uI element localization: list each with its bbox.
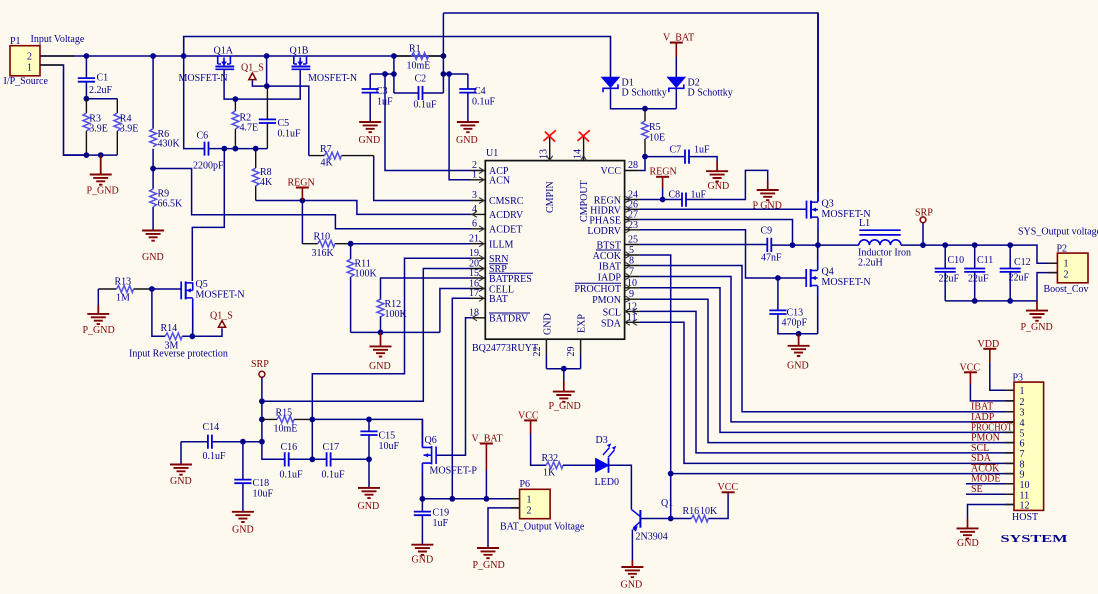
wire rail tap down to C6: [184, 56, 205, 149]
port VCC for R16: [718, 482, 739, 493]
svg-text:4K: 4K: [260, 177, 273, 188]
svg-text:ACOK: ACOK: [593, 251, 622, 262]
svg-text:SCL: SCL: [603, 307, 621, 318]
svg-text:C12: C12: [1014, 257, 1031, 268]
svg-text:C6: C6: [197, 131, 209, 142]
svg-text:MOSFET-P: MOSFET-P: [430, 466, 478, 477]
U1 top pins CMPIN/CMPOUT with no-connect X: [539, 130, 591, 222]
svg-text:R13: R13: [115, 277, 132, 288]
wire Q5 gate row: [152, 288, 181, 290]
ground GND under C13: [787, 331, 810, 372]
svg-text:PROCHOT: PROCHOT: [574, 284, 621, 295]
terminal SRP (output rail): [915, 208, 933, 249]
svg-text:470pF: 470pF: [782, 318, 808, 329]
svg-text:12: 12: [627, 301, 637, 312]
connector P2: [1044, 244, 1089, 296]
resistor R16: [668, 492, 728, 522]
svg-text:Input Voltage: Input Voltage: [31, 34, 85, 45]
svg-text:C19: C19: [433, 508, 450, 519]
svg-text:2.2uH: 2.2uH: [858, 258, 883, 269]
svg-text:21: 21: [469, 234, 479, 245]
svg-text:MOSFET-N: MOSFET-N: [179, 73, 228, 84]
wire input rail y=56: [40, 55, 443, 57]
svg-text:3: 3: [472, 190, 477, 201]
ground GND under C4: [456, 122, 479, 146]
wire REGN node down to R10: [301, 201, 303, 244]
U1 pin arrows right: [625, 197, 637, 326]
svg-text:CMSRC: CMSRC: [489, 196, 524, 207]
resistor R3: [83, 99, 108, 155]
U1 left pin stubs: [471, 171, 486, 318]
svg-text:0.1uF: 0.1uF: [278, 129, 302, 140]
ground P_GND under P2: [1021, 301, 1053, 333]
resistor R6: [150, 56, 181, 169]
svg-text:22uF: 22uF: [1009, 273, 1030, 284]
capacitor C1: [78, 56, 113, 99]
ground GND under C7: [706, 161, 729, 192]
wire ACOK net pin5 to P3 pin9 and Q1 base: [639, 255, 670, 519]
capacitor C13: [769, 275, 817, 334]
svg-text:GND: GND: [369, 361, 391, 372]
svg-text:R10: R10: [314, 232, 331, 243]
svg-text:IADP: IADP: [971, 412, 995, 423]
transistor Q6 MOSFET-P: [422, 419, 477, 498]
connector P1: [4, 34, 85, 87]
svg-text:LODRV: LODRV: [587, 226, 621, 237]
wire PHASE to switch node: [639, 220, 792, 246]
svg-text:BQ24773RUYT: BQ24773RUYT: [472, 343, 538, 354]
capacitor C11: [964, 245, 993, 301]
wire ILLM row pin21: [351, 243, 471, 245]
svg-text:10mE: 10mE: [407, 61, 431, 72]
svg-text:P_GND: P_GND: [549, 401, 581, 412]
svg-text:13: 13: [539, 149, 550, 159]
wire connector pin stubs: [40, 56, 1057, 508]
svg-text:47nF: 47nF: [761, 253, 782, 264]
wire SDA net pin11 to P3 pin8: [639, 322, 1014, 463]
wire gates node row y=148.6: [224, 148, 267, 150]
svg-text:316K: 316K: [312, 248, 335, 259]
svg-text:4.7E: 4.7E: [240, 123, 259, 134]
svg-text:P_GND: P_GND: [83, 325, 115, 336]
port REGN (left): [288, 177, 315, 200]
svg-text:0.1uF: 0.1uF: [203, 451, 227, 462]
wire SYS output rail: [945, 245, 1057, 263]
svg-text:10uF: 10uF: [253, 489, 274, 500]
inductor L1: [818, 218, 945, 269]
svg-text:25: 25: [628, 235, 638, 246]
svg-text:I/P_Source: I/P_Source: [4, 76, 49, 87]
wire BATPRES row to R12: [381, 278, 471, 300]
svg-text:Q1A: Q1A: [214, 46, 234, 57]
svg-text:SYS_Output voltage: SYS_Output voltage: [1018, 227, 1098, 238]
connector P6: [500, 479, 585, 533]
wire SCL net pin12 to P3 pin7: [639, 311, 1014, 453]
svg-text:1uF: 1uF: [694, 145, 710, 156]
svg-text:14: 14: [572, 149, 583, 159]
wire gates node to Q5 drain: [192, 149, 224, 281]
svg-text:CMPIN: CMPIN: [545, 181, 556, 213]
ground GND under R9: [142, 231, 164, 264]
capacitor C7: [645, 145, 717, 164]
svg-text:IADP: IADP: [598, 273, 622, 284]
resistor R14: [152, 289, 192, 352]
svg-text:Q1_S: Q1_S: [241, 63, 264, 74]
port REGN (right): [650, 167, 677, 200]
svg-text:7: 7: [629, 267, 634, 278]
transistor Q1B MOSFET-N: [290, 46, 358, 85]
wire BTST row: [639, 244, 767, 246]
svg-text:P_GND: P_GND: [473, 560, 505, 571]
svg-text:BAT: BAT: [489, 294, 508, 305]
port VCC for LED: [518, 411, 546, 466]
wire R8 to REGN/ACDRV row: [256, 201, 471, 215]
svg-text:R16: R16: [683, 506, 700, 517]
connector P3: [1012, 373, 1044, 524]
svg-text:1: 1: [27, 63, 32, 74]
svg-text:66.5K: 66.5K: [158, 199, 184, 210]
svg-text:GND: GND: [358, 501, 380, 512]
port Q1_S at Q5 source: [192, 311, 232, 337]
svg-text:C7: C7: [670, 145, 682, 156]
resistor R2: [232, 99, 258, 149]
svg-text:SE: SE: [971, 484, 983, 495]
wire IADP net pin7 to P3 pin4: [639, 277, 1014, 422]
svg-text:1: 1: [527, 495, 532, 506]
transistor Q5 MOSFET-N: [181, 279, 244, 336]
port VCC at P3: [960, 363, 1015, 401]
wire bottom rail of C1/R3/R4: [64, 154, 118, 156]
resistor R11: [347, 244, 377, 333]
svg-text:BATPRES: BATPRES: [489, 274, 532, 285]
wire Q1A gate to gates row: [224, 69, 300, 99]
wire P6 pin2 to ground: [488, 508, 520, 548]
svg-text:29: 29: [566, 347, 577, 357]
wire LED cathode to Q1 collector: [609, 465, 632, 509]
svg-text:0.1uF: 0.1uF: [472, 97, 496, 108]
wire BAT riser: [452, 298, 470, 499]
svg-text:4: 4: [472, 204, 477, 215]
U1 left pin numbers: [469, 160, 479, 319]
ground GND under P3: [957, 519, 979, 549]
ground GND under C3: [359, 122, 382, 146]
port V_BAT top: [663, 33, 694, 78]
diode D1 Schottky: [602, 77, 667, 98]
resistor R8: [252, 149, 273, 201]
wire ACN riser: [449, 74, 470, 180]
svg-text:4: 4: [1020, 418, 1025, 429]
ground P_GND right of C8: [753, 181, 782, 212]
svg-text:100K: 100K: [355, 269, 378, 280]
svg-text:C18: C18: [253, 478, 270, 489]
svg-text:MOSFET-N: MOSFET-N: [308, 73, 357, 84]
svg-text:R7: R7: [320, 144, 332, 155]
resistor R32: [542, 453, 596, 479]
U1 right pin names: [574, 166, 621, 329]
wire R1 right node riser to top wire: [443, 13, 468, 93]
svg-text:P2: P2: [1057, 244, 1068, 255]
svg-text:22uF: 22uF: [968, 274, 989, 285]
wire top link to Q3 drain: [443, 13, 818, 201]
wire SRP riser: [262, 269, 471, 402]
wire BATDRV riser to Q6 gate: [436, 318, 470, 455]
svg-text:EXP: EXP: [577, 314, 588, 333]
svg-text:MOSFET-N: MOSFET-N: [196, 290, 245, 301]
capacitor C8: [669, 170, 768, 206]
svg-text:1uF: 1uF: [691, 190, 707, 201]
svg-text:C14: C14: [203, 422, 220, 433]
svg-text:LED0: LED0: [595, 477, 619, 488]
transistor Q1A MOSFET-N: [179, 46, 235, 85]
svg-text:15: 15: [469, 268, 479, 279]
wire output bottom rail: [945, 273, 1057, 301]
svg-text:5: 5: [629, 245, 634, 256]
wire LODRV to Q4 gate: [639, 230, 806, 278]
svg-text:BATDRV: BATDRV: [489, 314, 529, 325]
svg-text:10: 10: [1020, 480, 1030, 491]
capacitor C15: [360, 419, 399, 459]
svg-text:Q1_S: Q1_S: [210, 311, 233, 322]
svg-text:22uF: 22uF: [939, 274, 960, 285]
svg-text:12: 12: [1020, 501, 1030, 512]
wire Q1 emitter to ground: [631, 530, 633, 561]
svg-text:Q5: Q5: [196, 279, 208, 290]
svg-text:2.2uF: 2.2uF: [89, 85, 113, 96]
svg-text:SRP: SRP: [251, 359, 269, 370]
wire R3/R4 top rail: [86, 98, 117, 100]
svg-text:R5: R5: [649, 122, 661, 133]
wire top loop from rail to D1: [184, 37, 611, 78]
svg-text:R14: R14: [161, 323, 178, 334]
wire R1 left node down / kelvin row: [370, 56, 394, 93]
svg-text:11: 11: [627, 312, 637, 323]
svg-text:GND: GND: [142, 252, 164, 263]
svg-text:C5: C5: [278, 118, 290, 129]
svg-text:2: 2: [1020, 397, 1025, 408]
resistor R13: [98, 277, 152, 304]
resistor R12: [377, 299, 407, 332]
port Q1_S: [241, 63, 267, 87]
svg-text:1: 1: [1064, 259, 1069, 270]
resistor R4: [114, 99, 139, 155]
svg-text:SDA: SDA: [601, 318, 622, 329]
svg-text:HOST: HOST: [1012, 512, 1038, 523]
U1 pin arrows left: [472, 168, 484, 321]
IC U1 BQ24773RUYT: [472, 148, 625, 354]
svg-text:U1: U1: [486, 148, 498, 159]
transistor Q1 2N3904: [631, 498, 673, 543]
wire CELL riser: [440, 289, 471, 333]
wire P3 pin12 to ground: [968, 505, 1015, 520]
svg-text:7: 7: [1020, 449, 1025, 460]
svg-text:C17: C17: [323, 442, 340, 453]
svg-text:2: 2: [27, 52, 32, 63]
svg-text:Boost_Cov: Boost_Cov: [1044, 284, 1089, 295]
wire Q1_S node to R7 riser: [267, 86, 309, 156]
svg-text:CMPOUT: CMPOUT: [579, 180, 590, 222]
U1 left pin names: [489, 166, 532, 325]
ground GND under Q1: [621, 560, 644, 591]
svg-text:D3: D3: [596, 435, 608, 446]
resistor R1: [394, 44, 444, 72]
svg-text:GND: GND: [621, 580, 643, 591]
svg-text:1: 1: [472, 170, 477, 181]
wire REGN pin24 row: [639, 199, 682, 201]
svg-text:0.1uF: 0.1uF: [280, 470, 304, 481]
svg-text:D Schottky: D Schottky: [622, 88, 667, 99]
wire Q1 common source tap: [266, 56, 268, 86]
ground P_GND under U1: [549, 369, 581, 412]
wire battery rail: [422, 498, 519, 500]
svg-text:R32: R32: [542, 453, 559, 464]
svg-text:P1: P1: [10, 36, 21, 47]
svg-text:C4: C4: [474, 86, 486, 97]
svg-text:Q6: Q6: [425, 435, 437, 446]
svg-text:GND: GND: [170, 476, 192, 487]
capacitor C16: [280, 442, 313, 481]
svg-text:GND: GND: [543, 313, 554, 335]
svg-text:R1: R1: [409, 44, 421, 55]
svg-text:0.1uF: 0.1uF: [414, 100, 438, 111]
svg-text:6: 6: [472, 219, 477, 230]
wire ACP riser: [385, 74, 471, 171]
svg-text:P6: P6: [520, 479, 531, 490]
wire PMON net pin9 to P3 pin6: [639, 299, 1014, 442]
capacitor C9: [761, 226, 818, 264]
svg-text:3.9E: 3.9E: [89, 124, 108, 135]
capacitor C12: [1000, 245, 1031, 301]
svg-text:C8: C8: [669, 190, 681, 201]
U1 right pin stubs: [625, 171, 640, 323]
svg-text:1: 1: [1020, 386, 1025, 397]
svg-text:ILLM: ILLM: [489, 240, 514, 251]
svg-text:P_GND: P_GND: [87, 186, 119, 197]
svg-text:2N3904: 2N3904: [636, 532, 668, 543]
ground P_GND under R13: [83, 289, 115, 336]
capacitor C17: [312, 442, 369, 481]
svg-text:P_GND: P_GND: [1021, 322, 1053, 333]
svg-text:REGN: REGN: [288, 177, 315, 188]
ground GND under C15/C17: [358, 459, 381, 512]
wire R5 to VCC pin28: [639, 157, 645, 171]
ground GND under C18: [232, 512, 254, 536]
svg-text:1uF: 1uF: [433, 518, 449, 529]
svg-text:P3: P3: [1013, 373, 1024, 384]
svg-text:MOSFET-N: MOSFET-N: [822, 277, 871, 288]
ground GND left of C14: [170, 442, 192, 487]
svg-text:GND: GND: [957, 538, 979, 549]
svg-text:9: 9: [629, 289, 634, 300]
svg-text:22: 22: [532, 347, 543, 357]
ground P_GND under P6: [473, 548, 505, 571]
svg-text:2: 2: [527, 506, 532, 517]
resistor R10: [302, 232, 350, 260]
svg-text:C11: C11: [977, 255, 993, 266]
svg-text:28: 28: [628, 160, 638, 171]
capacitor C6: [193, 131, 224, 172]
svg-text:3.9E: 3.9E: [120, 124, 139, 135]
wire SRN branch down to C16/C17 row: [311, 419, 313, 459]
U1 right pin numbers: [627, 160, 638, 323]
wire SRN riser: [312, 258, 470, 419]
svg-text:Q3: Q3: [822, 199, 834, 210]
svg-text:VCC: VCC: [600, 166, 621, 177]
svg-text:10E: 10E: [649, 133, 665, 144]
resistor R9: [150, 169, 183, 231]
svg-text:ACDRV: ACDRV: [489, 210, 524, 221]
resistor R5: [642, 109, 666, 157]
svg-text:C16: C16: [281, 442, 298, 453]
svg-text:8: 8: [629, 256, 634, 267]
svg-text:C10: C10: [948, 255, 965, 266]
svg-text:2: 2: [1064, 270, 1069, 281]
wire R15 right row to Q6 source: [312, 419, 422, 447]
LED D3: [595, 435, 619, 488]
wire P1 pin1 to ground rail: [40, 65, 86, 155]
svg-text:18: 18: [469, 308, 479, 319]
wire R7 to CMSRC pin3: [374, 156, 471, 201]
svg-text:17: 17: [469, 288, 479, 299]
svg-text:1K: 1K: [543, 468, 556, 479]
wire D1 cathode down: [611, 88, 677, 108]
node rail junctions: [84, 53, 90, 59]
U1 bottom pins GND/EXP: [532, 313, 588, 371]
svg-text:23: 23: [628, 220, 638, 231]
wire PROCHOT net pin10 to P3 pin5: [639, 288, 1014, 433]
svg-text:10uF: 10uF: [379, 441, 400, 452]
ground GND under R12: [369, 332, 392, 372]
capacitor C5: [259, 86, 301, 149]
capacitor C4: [459, 74, 495, 122]
transistor Q4 MOSFET-N: [806, 245, 870, 334]
wire IBAT net pin8 to P3 pin3: [639, 266, 1014, 412]
svg-text:BAT_Output Voltage: BAT_Output Voltage: [500, 522, 585, 533]
wire SE stub: [966, 493, 1014, 495]
svg-text:GND: GND: [456, 135, 478, 146]
capacitor C19: [414, 499, 449, 545]
svg-text:GND: GND: [708, 181, 730, 192]
svg-text:4K: 4K: [321, 158, 334, 169]
port V_BAT at battery rail: [472, 434, 503, 499]
wire gnd rail R11/R12: [351, 331, 440, 333]
svg-text:2200pF: 2200pF: [193, 161, 224, 172]
capacitor C18: [234, 442, 273, 512]
svg-text:SCL: SCL: [971, 443, 989, 454]
svg-text:GND: GND: [359, 135, 381, 146]
resistor R7: [309, 144, 374, 169]
svg-text:Q1B: Q1B: [290, 46, 309, 57]
svg-text:GND: GND: [787, 361, 809, 372]
svg-text:C3: C3: [376, 86, 388, 97]
svg-text:Q4: Q4: [822, 267, 834, 278]
resistor R15: [262, 408, 312, 435]
svg-text:GND: GND: [232, 525, 254, 536]
svg-text:GND: GND: [412, 555, 434, 566]
wire MODE stub: [966, 483, 1014, 485]
svg-text:ACN: ACN: [489, 176, 510, 187]
svg-text:C1: C1: [97, 73, 109, 84]
svg-text:MODE: MODE: [971, 474, 1000, 485]
svg-text:430K: 430K: [158, 139, 181, 150]
ground GND under C19: [411, 545, 433, 566]
svg-text:VCC: VCC: [718, 482, 739, 493]
svg-text:1M: 1M: [116, 293, 130, 304]
wire HIDRV to Q3 gate: [639, 208, 806, 210]
svg-text:PMON: PMON: [592, 295, 621, 306]
capacitor C10: [935, 245, 964, 301]
svg-text:R15: R15: [276, 408, 293, 419]
ground P_GND input: [87, 155, 119, 196]
